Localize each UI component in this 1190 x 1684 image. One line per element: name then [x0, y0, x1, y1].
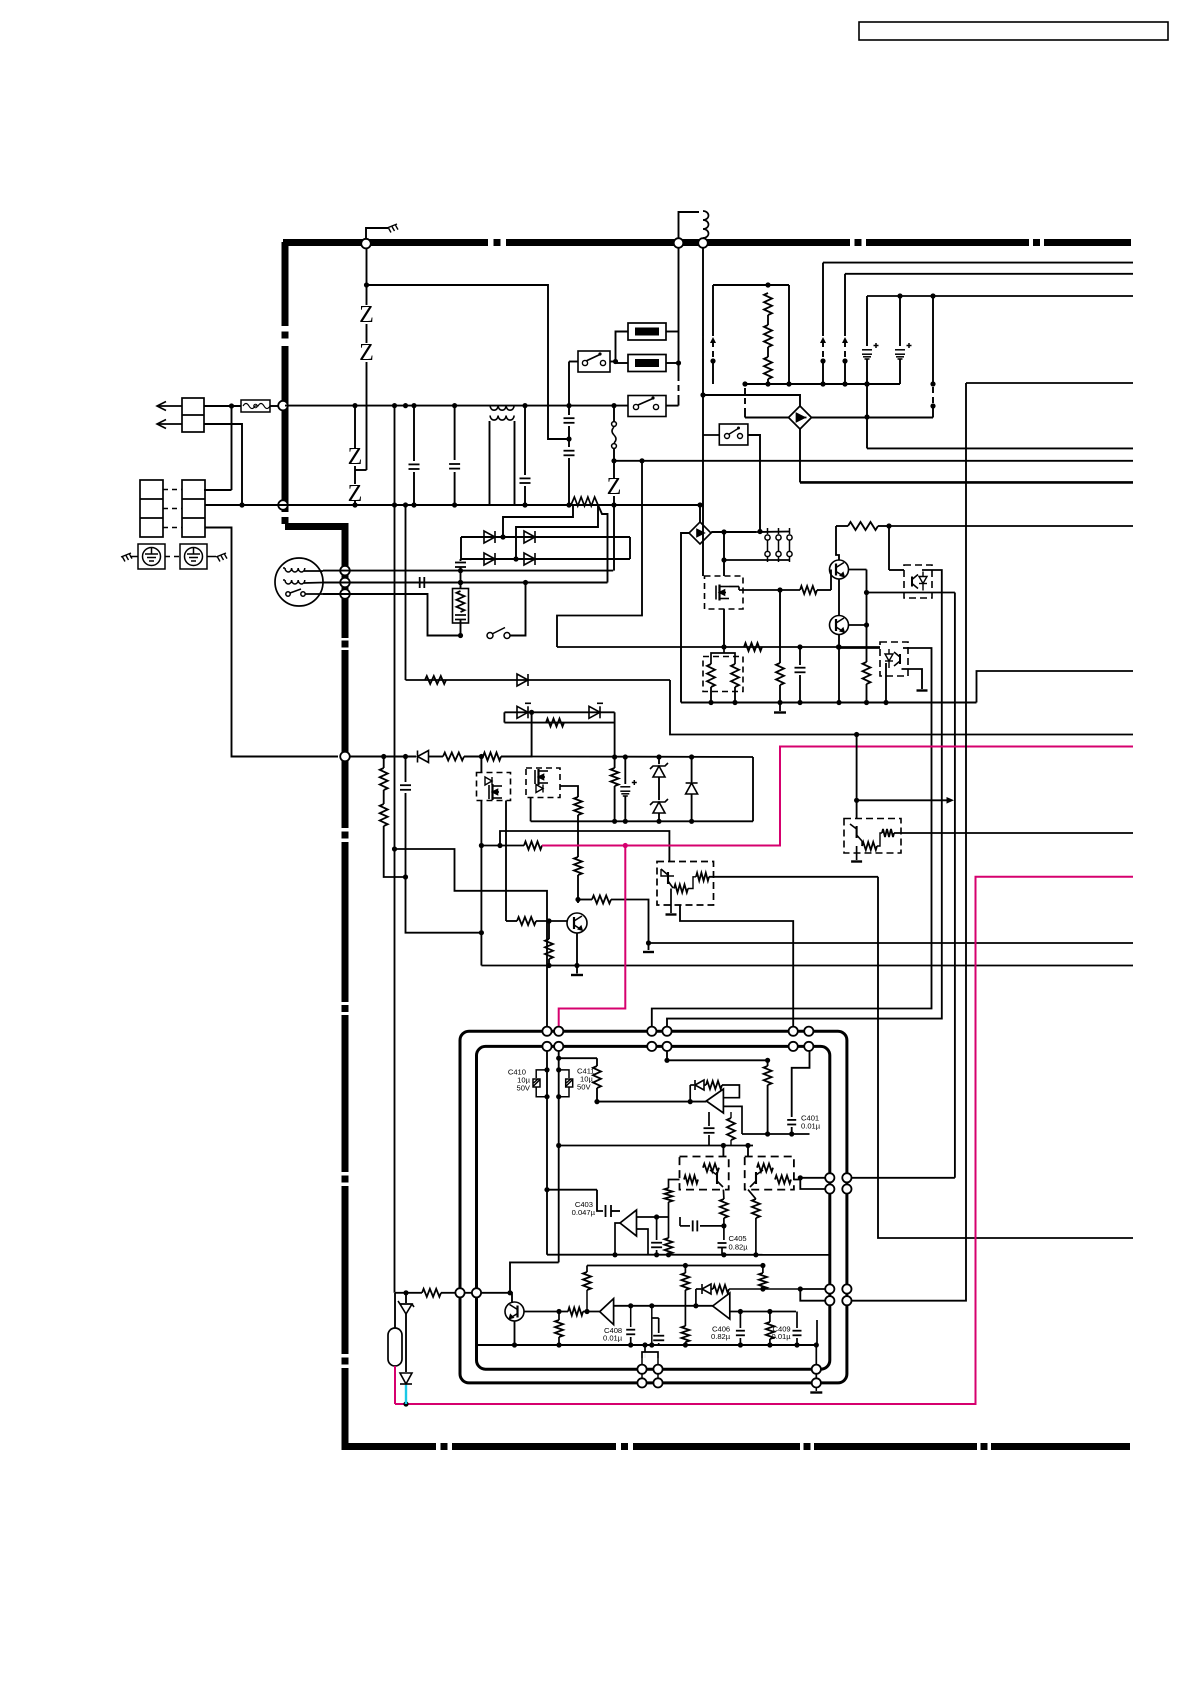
wire: [501, 712, 532, 756]
junction node rail top: [392, 403, 397, 408]
junction node: [737, 427, 740, 430]
wire: [779, 703, 781, 712]
wire: [454, 472, 456, 505]
wire: [723, 647, 725, 653]
capacitor line filter C-c: [520, 478, 531, 483]
wire: [730, 1311, 796, 1313]
junction node: [930, 293, 935, 298]
junction node: [798, 1175, 803, 1180]
wire snubber bottom: [504, 722, 614, 724]
terminal circle: [804, 1027, 813, 1036]
junction node: [654, 1214, 659, 1219]
svg-text:0.01µ: 0.01µ: [801, 1122, 821, 1131]
bridge rectifier DB1: [789, 406, 812, 429]
junction node: [566, 436, 571, 441]
wire: [460, 583, 462, 589]
wire: [767, 1060, 769, 1066]
wire: [532, 756, 753, 759]
wire: [815, 1345, 817, 1383]
wire output rail 6: [614, 460, 1133, 462]
wire step to diode matrix top: [503, 505, 573, 537]
wire motor line 1: [323, 570, 613, 572]
capacitor (small) on PTC node: [455, 563, 466, 568]
wire to IC pins: [441, 1292, 455, 1294]
wire: [536, 1087, 547, 1097]
transistor Q: [830, 560, 849, 579]
dashed connector crossing: [678, 375, 680, 399]
terminal circle: [825, 1173, 834, 1182]
wire: [816, 1320, 818, 1345]
junction node rail bottom: [611, 502, 616, 507]
wire: [596, 1088, 598, 1102]
junction node: [836, 644, 841, 649]
junction node: [458, 568, 463, 573]
wire: [557, 646, 880, 648]
junction node: [556, 646, 558, 648]
wire earth left: [130, 556, 138, 558]
wire rail to bridge2: [699, 505, 701, 522]
wire bridge1 AC right: [812, 417, 934, 419]
terminal circle: [647, 1042, 656, 1051]
wire: [688, 877, 696, 889]
wire: [742, 1133, 810, 1135]
MOSFET: [489, 784, 502, 800]
svg-text:50V: 50V: [516, 1084, 530, 1093]
wire: [405, 757, 407, 783]
wire pin tops: [756, 531, 790, 534]
wire: [613, 406, 615, 422]
wire: [460, 567, 462, 583]
terminal circle: [554, 1027, 563, 1036]
wire: [613, 461, 615, 478]
wire error amp feed: [500, 831, 669, 862]
terminal circle: [825, 1184, 834, 1193]
wire: [713, 1285, 729, 1293]
wire PC2 collector to IC pin: [652, 648, 932, 1031]
wire: [481, 845, 524, 847]
junction node: [458, 580, 463, 585]
terminal circle: [842, 1296, 851, 1305]
wire to relay S4: [702, 395, 704, 435]
capacitor C-h: [795, 668, 806, 673]
terminal circle: [825, 1284, 834, 1293]
wire: [710, 687, 712, 703]
svg-text:50V: 50V: [577, 1083, 591, 1092]
wire: [546, 719, 564, 727]
optocoupler PC2: [880, 642, 908, 676]
op-amp: [713, 1293, 730, 1319]
wire: [558, 1337, 560, 1345]
wire long vertical x=966 to IC pin: [847, 383, 966, 1301]
capacitor C-s1: [400, 785, 411, 790]
terminal circle: [662, 1042, 671, 1051]
fuse/ICP F3: [628, 355, 666, 372]
junction node: [403, 1290, 408, 1295]
wire: [757, 1164, 773, 1172]
junction node: [598, 352, 601, 355]
wire: [592, 896, 611, 904]
relay switch S1: [578, 351, 610, 372]
wire: [932, 296, 934, 384]
wire: [747, 1146, 749, 1157]
junction node: [479, 754, 484, 759]
wire: [644, 1352, 646, 1358]
transistor Q: [505, 1302, 524, 1321]
wire: [624, 796, 626, 821]
wire: [477, 1344, 817, 1346]
wire: [711, 1288, 713, 1290]
wire: [574, 797, 582, 815]
junction node: [612, 1252, 617, 1257]
wire: [657, 1359, 659, 1383]
wire Q2 emitter to gnd rail: [838, 635, 840, 703]
terminal circle: [789, 1042, 798, 1051]
wire: [932, 406, 934, 418]
junction node: [864, 622, 869, 627]
wire degauss/line to bridge1 +: [703, 395, 800, 406]
junction node: [392, 846, 397, 851]
wire: [848, 522, 878, 530]
wire PC2 LED in: [839, 647, 881, 649]
wire: [517, 917, 536, 925]
wire: [383, 757, 385, 769]
wire: [652, 1317, 659, 1319]
wire: [738, 587, 740, 591]
wire: [586, 1290, 588, 1312]
wire: [607, 581, 609, 584]
wire: [614, 757, 616, 768]
junction node: [930, 381, 935, 386]
op-amp: [600, 1299, 614, 1325]
junction node: [529, 710, 534, 715]
wire: [405, 1293, 407, 1303]
wire: [559, 1087, 569, 1097]
magenta junction node: [623, 843, 628, 848]
junction node: [613, 359, 618, 364]
wire to pin row2: [800, 1289, 830, 1301]
wire diode matrix bottom row: [461, 558, 630, 560]
wire to IC right pin row1: [847, 1177, 955, 1179]
wire: [734, 687, 736, 703]
wire: [304, 582, 323, 585]
capacitor X C-e: [564, 451, 575, 456]
wire: [775, 1176, 791, 1184]
junction node: [738, 1342, 743, 1347]
wire: [752, 1199, 760, 1218]
diode: [695, 1080, 704, 1090]
degauss relay switch S3 (open contacts): [487, 633, 493, 639]
transistor Q: [567, 913, 587, 933]
wire diode matrix top row: [461, 536, 630, 538]
wire: [899, 359, 901, 384]
wire: [882, 829, 894, 837]
junction node: [760, 1263, 765, 1268]
wire: [656, 1217, 658, 1240]
wire bridge1 AC left: [745, 417, 789, 419]
wire F3 left lead: [616, 362, 629, 364]
junction node rail bottom: [411, 502, 416, 507]
wire: [863, 662, 871, 684]
junction node rail top: [566, 403, 571, 408]
wire: [380, 804, 388, 826]
capacitor C409: [793, 1331, 802, 1336]
wire: [767, 1085, 769, 1134]
terminal circle: [653, 1378, 662, 1387]
wire: [684, 1266, 686, 1274]
dashed mate link connector row: [163, 527, 182, 529]
wire: [681, 702, 977, 704]
wire: [182, 517, 205, 519]
arrow marker: [820, 337, 826, 343]
wire: [406, 877, 482, 933]
wire: [614, 1305, 713, 1307]
wire snubber left: [712, 285, 714, 336]
junction node: [656, 819, 661, 824]
wire: [679, 1217, 681, 1226]
wire: [413, 406, 415, 461]
junction node: [364, 282, 369, 287]
wire: [642, 1352, 658, 1359]
wire: [413, 472, 415, 505]
terminal circle: [812, 1365, 821, 1374]
wire: [568, 458, 570, 505]
junction node: [239, 502, 244, 507]
wire: [744, 412, 746, 418]
wire relay drive from rail6: [557, 461, 642, 647]
wire: [395, 1292, 406, 1294]
wire: [899, 296, 901, 346]
wire: [689, 1085, 691, 1102]
wire: [844, 274, 846, 336]
wire degauss return: [702, 248, 704, 395]
diode D2: [524, 531, 535, 543]
junction node: [381, 754, 386, 759]
border inner-left vertical chain line: [342, 650, 349, 828]
wire: [547, 1254, 830, 1256]
chassis ground symbol (left): [121, 553, 132, 562]
wire: [587, 1265, 763, 1267]
wire with arrow to PWM column: [857, 799, 950, 801]
capacitor line filter C-b: [449, 464, 460, 469]
wire long feedback to right edge: [878, 877, 1133, 1238]
junction node: [584, 1309, 589, 1314]
wire: [877, 833, 882, 846]
wire Q11 drain: [480, 757, 482, 773]
wire PC1 emitter/diode row: [867, 592, 955, 594]
wire: [568, 362, 570, 416]
wire: [546, 1046, 548, 1254]
title box (empty): [859, 22, 1168, 40]
diode D12: [400, 1373, 412, 1384]
wire Q10 source down: [723, 609, 725, 647]
wire: [727, 1118, 735, 1140]
wire: [586, 354, 601, 361]
wire: [744, 643, 762, 651]
wire: [406, 1292, 422, 1294]
zener diode D7: [650, 763, 668, 777]
wire: [764, 1066, 772, 1085]
junction node: [458, 580, 463, 585]
wire Q3 base: [536, 920, 567, 922]
wire: [866, 359, 868, 417]
diode D4: [524, 553, 535, 565]
junction node rail top: [403, 403, 408, 408]
junction node: [864, 590, 869, 595]
wire: [678, 332, 680, 376]
MOSFET Q10 (dashed box): [705, 576, 744, 609]
wire: [366, 324, 368, 343]
wire: [383, 790, 385, 804]
junction node: [479, 930, 484, 935]
wire fuse to border terminal: [270, 405, 281, 407]
surge arrester tube (pill): [388, 1328, 402, 1366]
terminal circle: [455, 1288, 464, 1297]
junction node: [765, 282, 770, 287]
wire: [182, 414, 204, 416]
wire: [668, 1253, 670, 1256]
wire: [678, 248, 680, 332]
wire: [844, 361, 846, 384]
junction node: [500, 534, 505, 539]
terminal circle on border (motor 1): [340, 566, 350, 576]
junction node: [854, 732, 859, 737]
wire: [614, 786, 616, 821]
wire output rail 4: [966, 382, 1133, 384]
connector block right column: [182, 480, 205, 537]
svg-text:0.01µ: 0.01µ: [603, 1334, 623, 1343]
junction node: [836, 700, 841, 705]
wire to Q1 base: [830, 570, 832, 591]
junction node: [786, 381, 791, 386]
MOSFET: [716, 585, 729, 601]
capacitor C-i3: [704, 1128, 715, 1133]
border left vertical chain line: [282, 242, 289, 326]
wire long left vertical x=394.5: [394, 406, 396, 1293]
wire: [668, 1202, 670, 1238]
diode: [702, 1284, 711, 1294]
wire: [380, 768, 388, 790]
wire down to connector row1: [231, 406, 233, 490]
junction node: [546, 963, 551, 968]
diode D1: [484, 531, 495, 543]
capacitor C-i7: [651, 1243, 662, 1248]
wire: [542, 747, 1133, 846]
arrow marker: [842, 337, 848, 343]
wire: [559, 1070, 569, 1078]
junction node: [523, 580, 528, 585]
junction node: [765, 381, 770, 386]
wire AC line 1: [158, 405, 182, 407]
border top chain line: [283, 239, 488, 246]
wire down to switcher: [702, 435, 704, 576]
capacitor line filter C-a: [409, 464, 420, 469]
junction node: [689, 754, 694, 759]
wire to pin row2: [800, 1178, 830, 1189]
junction node: [646, 940, 651, 945]
wire: [656, 1250, 658, 1255]
wire matrix right: [629, 537, 631, 559]
wire PC1 LED to IC pin: [667, 570, 942, 1031]
wire: [140, 498, 163, 500]
optocoupler PC1: [904, 565, 932, 598]
wire: [779, 685, 781, 703]
ground bar: [917, 689, 928, 691]
line filter choke LF501: [490, 406, 514, 421]
wire: [822, 361, 824, 384]
wire: [665, 1238, 673, 1254]
wire: [510, 1262, 559, 1292]
wire output rail 5: [867, 447, 1133, 449]
wire: [524, 486, 526, 505]
wire connector row1: [204, 489, 232, 491]
chassis ground symbol (top): [387, 224, 398, 233]
wire pins to Q4: [455, 1293, 512, 1303]
junction node: [767, 1309, 772, 1314]
wire: [503, 712, 505, 722]
wire: [596, 1058, 598, 1066]
wire: [611, 768, 619, 786]
wire: [666, 1046, 668, 1060]
wire: [696, 873, 709, 881]
IC U401 outer frame: [460, 1031, 847, 1383]
motor / AC plug symbol M: [275, 558, 323, 606]
junction node: [777, 700, 782, 705]
junction node: [544, 1067, 549, 1072]
dashed connector wire: [712, 341, 714, 358]
wire: [394, 1366, 396, 1404]
wire snubber2 right leg: [752, 757, 754, 821]
MOSFET Q11 (dashed box): [477, 773, 511, 801]
terminal circle: [812, 1378, 821, 1387]
wire: [684, 1342, 686, 1345]
wire: [593, 1066, 601, 1088]
wire jog: [355, 469, 367, 471]
terminal circle: [842, 1173, 851, 1182]
junction node: [403, 874, 408, 879]
junction node rail bottom: [403, 502, 408, 507]
wire: [684, 1290, 686, 1326]
wire: [861, 841, 863, 846]
junction node: [864, 414, 869, 419]
electrolytic capacitor C-i: [620, 780, 637, 796]
wire Q4 emitter: [514, 1321, 516, 1345]
wire PC3 collector feed: [856, 735, 858, 819]
wire to chassis ground at top: [366, 228, 388, 240]
junction node: [623, 819, 628, 824]
wire: [722, 1146, 724, 1157]
wire matrix left: [460, 537, 462, 559]
junction node: [930, 403, 935, 408]
wire Q11 source down: [480, 801, 482, 966]
wire F2 right lead: [666, 331, 679, 333]
wire: [457, 591, 465, 612]
capacitor C-i10: [693, 1220, 698, 1231]
ground bar: [666, 913, 677, 915]
wire rail to right edge y=671: [977, 671, 1134, 703]
terminal circle: [637, 1365, 646, 1374]
protective earth symbol 2: [180, 544, 207, 569]
wire AC line2 to neutral rail: [204, 424, 242, 505]
wire: [555, 1320, 563, 1337]
wire: [583, 1272, 591, 1290]
wire: [568, 426, 570, 447]
wire: [658, 813, 660, 821]
wire A2 output down: [615, 1223, 620, 1255]
junction node: [693, 1303, 698, 1308]
wire: [708, 1112, 710, 1126]
junction node: [721, 1252, 726, 1257]
wire: [658, 777, 660, 800]
